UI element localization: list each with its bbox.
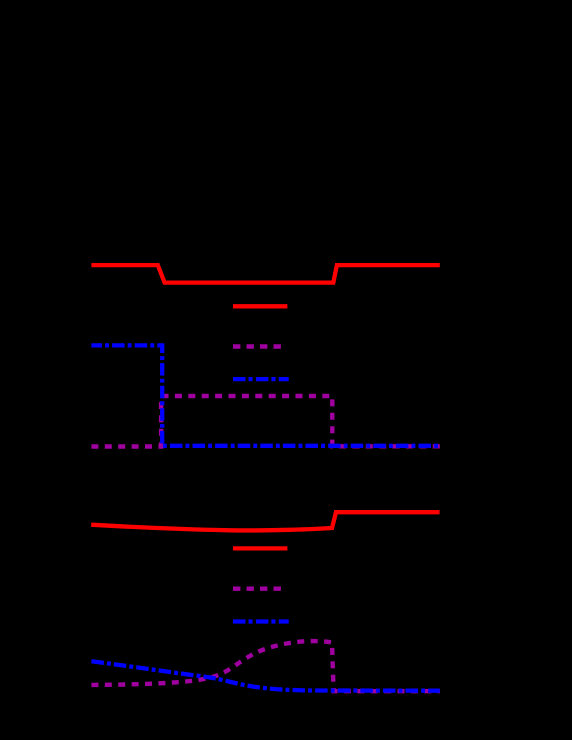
panel 2 red solid curve (sag then recovery step) (91, 512, 439, 530)
panel 2 legend blue sample (233, 619, 289, 623)
panel 2 magenta dashed curve (slow rise, hump, drop at clearing) (91, 641, 439, 691)
panel 1 legend red sample (233, 304, 287, 308)
panel 1 legend blue sample (233, 377, 289, 381)
panel 2 blue dash-dot curve (gradual decay to floor) (91, 661, 439, 691)
panel 1 legend magenta sample (233, 344, 281, 348)
panel 1 blue dash-dot curve (upper level, drop at fault, bottom) (91, 345, 439, 445)
panel 2 legend red sample (233, 546, 287, 550)
panel 2 legend magenta sample (233, 587, 281, 591)
panel 1 magenta dashed curve (bottom, rise at fault, mid plateau, drop) (91, 396, 439, 447)
panel 1 red solid curve (step down / step up) (91, 265, 439, 283)
